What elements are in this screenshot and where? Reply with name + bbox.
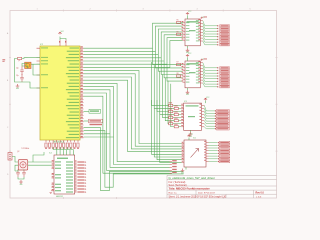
wire data3 to IC5 <box>84 32 183 58</box>
svg-text:MAX232: MAX232 <box>56 195 63 198</box>
wire branch4 to IC7 <box>164 61 182 78</box>
wire IC6 vcc <box>188 138 190 141</box>
wire bus2 w1 to K1 <box>84 74 182 146</box>
wire R to IC4 pin1 <box>57 147 60 151</box>
wire RN3 to IC3 <box>173 111 181 113</box>
wire branch2 to IC3 <box>157 68 169 111</box>
wire bus2 w7 to flags <box>84 93 170 170</box>
IC5 74HC595 body <box>185 19 200 46</box>
ground below IC3 <box>189 132 193 135</box>
svg-text:v. 6.3: v. 6.3 <box>256 197 262 199</box>
wire R to IC4 pin2 <box>60 147 63 151</box>
wire bus2 w3 to K1 <box>84 80 182 151</box>
wire data5 to IC5 <box>84 38 183 64</box>
power VCC at IC3 <box>204 98 207 100</box>
resistor RN2 <box>174 107 178 109</box>
svg-text:D: D <box>7 174 9 176</box>
wire C1 to crystal <box>22 66 28 69</box>
wire RN2 to IC3 <box>178 107 181 109</box>
wire branch2 to IC7 <box>158 55 182 72</box>
IC4 ground pin mark <box>50 191 55 194</box>
power VCC at IC5 pin 16 <box>201 17 204 19</box>
wire X1 to Q2 <box>12 157 18 163</box>
wire RN7 to IC3 <box>173 123 181 125</box>
wire VCC IC5 <box>187 15 189 19</box>
IC5 74HC595 pins <box>183 21 203 41</box>
IC7 74HC595 body <box>185 61 200 88</box>
svg-text:Rev 0.0: Rev 0.0 <box>256 192 265 195</box>
red net stubs at bus2 wire ends <box>170 161 172 163</box>
svg-text:22p: 22p <box>16 75 19 77</box>
flag box PDO <box>89 119 103 123</box>
resistor R16 <box>66 143 68 147</box>
wire XTAL2 to C1 <box>22 64 28 67</box>
wire IC3 vcc <box>205 101 207 104</box>
resistor RN3 <box>169 110 173 112</box>
wire to IC6 pin 7 <box>160 100 182 162</box>
svg-text:GND: GND <box>186 94 189 96</box>
ground below IC7 <box>186 90 190 93</box>
svg-text:GND: GND <box>181 173 184 175</box>
resistor RN8 <box>174 126 178 128</box>
wire to IC6 pin 6 <box>157 100 182 160</box>
power VCC above IC2 <box>58 32 61 34</box>
wire data1 to IC5 <box>84 26 183 51</box>
svg-text:R5: R5 <box>177 20 179 22</box>
IC6 output net labels <box>209 142 218 144</box>
microcontroller IC2 body <box>40 46 80 140</box>
svg-text:Date: 9 Feb 2017: Date: 9 Feb 2017 <box>198 191 216 194</box>
resistor R11 <box>48 143 50 147</box>
wire branch6 to IC3 <box>167 81 170 124</box>
resistor R14 <box>59 143 61 147</box>
wire Q2 out to IC4 <box>28 161 52 163</box>
wire lower pin 1 deep route <box>84 131 184 188</box>
wire bus2 w5 to flags <box>84 87 170 165</box>
wire branch0 to IC7 <box>153 48 183 64</box>
IC3 pins <box>181 105 204 126</box>
wire GND IC7 <box>187 88 189 91</box>
power VCC at IC7 pin 16 <box>201 59 204 61</box>
wire AVCC join <box>60 39 66 41</box>
IC2 top power pins <box>60 40 66 46</box>
resistor RN6 <box>174 120 178 122</box>
wire branch5 to IC3 <box>165 78 174 121</box>
resistor R6 <box>177 33 181 35</box>
resistor R12 <box>52 143 54 147</box>
svg-text:A: A <box>7 32 9 35</box>
IC4 top pins to resistor row <box>57 152 74 156</box>
svg-text:ty_elektronik_cmos_5x7_and_dri: ty_elektronik_cmos_5x7_and_driver <box>169 176 215 180</box>
resistor R7 <box>177 64 181 66</box>
svg-text:C: C <box>7 127 9 129</box>
resistor R13 <box>56 143 58 147</box>
svg-text:IC4: IC4 <box>49 152 52 154</box>
wire VCC to IC2 <box>59 37 61 41</box>
wire branch0 to IC3 <box>152 62 169 105</box>
resistor RN5 <box>169 117 173 119</box>
wire osc clk up to resistor row <box>33 152 44 162</box>
wire Q2 bottom to C8 <box>23 169 24 172</box>
schematic frame border <box>10 11 277 199</box>
IC4 body (bottom middle) <box>54 155 75 194</box>
svg-text:R6: R6 <box>177 31 179 33</box>
wire IC3 gnd <box>190 130 192 132</box>
wire RN5 to IC3 <box>173 117 181 119</box>
wire caps to gnd <box>18 177 24 179</box>
wire to C7 <box>15 170 18 172</box>
connector X1 on left edge <box>8 153 12 161</box>
resistor RN1 <box>169 104 173 106</box>
resistor R18 <box>73 143 75 147</box>
resistor R19 <box>77 143 79 147</box>
IC7 74HC595 output net labels <box>203 63 218 68</box>
IC2 right-side pins (stubs, pin numbers, pin names) <box>80 48 84 138</box>
wire lower pin 2 <box>84 133 111 135</box>
resistor R10 <box>45 143 47 147</box>
wire XTAL1 <box>28 57 41 59</box>
wire Q2 to IC4 b <box>28 164 52 166</box>
IC6 body (bottom right) <box>184 140 206 167</box>
wire R to IC4 pin3 <box>64 147 67 151</box>
wire to IC6 pin 4 <box>152 100 182 154</box>
wire Q2 left down <box>15 165 18 171</box>
resistor R8 <box>177 75 181 77</box>
resistor R1 <box>18 57 22 59</box>
wire bus2 w0 to K1 <box>84 71 182 144</box>
wire R to IC4 pin0 <box>53 147 57 151</box>
wire to flag2 <box>84 120 89 122</box>
wire to flag <box>84 110 90 112</box>
wire lower pin 3 <box>84 136 114 138</box>
wire RN1 to IC3 <box>173 104 181 106</box>
wire data0 to IC5 <box>84 23 183 48</box>
wire lower pin 0 deep route <box>84 127 184 190</box>
power VCC above IC5 <box>186 13 189 15</box>
flag text line 2 <box>90 124 103 125</box>
flag box PDI <box>89 109 101 113</box>
wire bus2 w4 to flags <box>84 83 170 161</box>
IC3 output net labels <box>204 105 216 111</box>
wire data6 to IC5 <box>84 41 183 68</box>
wire R1 to XTAL1 <box>22 57 28 60</box>
wire R to IC4 pin5 <box>71 147 73 151</box>
svg-text:GND: GND <box>19 184 22 186</box>
wire RN6 to IC3 <box>178 120 181 122</box>
IC5 74HC595 output net labels <box>203 21 218 26</box>
resistor RN7 <box>169 123 173 125</box>
wire branch4 to IC3 <box>163 74 169 117</box>
wire GND IC5 <box>187 46 189 49</box>
wire branch1 to IC3 <box>154 65 174 108</box>
crystal Q1 <box>25 62 31 68</box>
power VCC above IC6 <box>187 135 190 137</box>
svg-text:R7: R7 <box>177 62 179 64</box>
svg-text:Row: 1a: Row: 1a <box>169 192 178 194</box>
ground below C7 C8 <box>19 180 23 183</box>
capacitor C7 <box>16 170 20 178</box>
IC6 pins <box>182 143 209 163</box>
wire bus2 w2 to K1 <box>84 77 182 149</box>
wire R5 out <box>181 22 183 24</box>
svg-text:22p: 22p <box>16 68 19 70</box>
resistor RN4 <box>174 113 178 115</box>
IC4 right pins + labels <box>75 162 77 192</box>
IC2 left-side pins <box>37 48 41 88</box>
wire VCC IC7 <box>187 57 189 61</box>
oscillator Q2 body <box>18 160 27 170</box>
wire R to IC4 pin4 <box>67 147 70 151</box>
ground below IC5 <box>186 48 190 51</box>
ground below crystal caps <box>16 84 20 87</box>
wire R1 to caps <box>15 59 18 71</box>
wire RN8 to IC3 <box>178 126 181 128</box>
wire GND pin to ground <box>22 82 40 88</box>
wire RN4 to IC3 <box>178 114 181 116</box>
svg-text:IC3: IC3 <box>184 101 187 103</box>
wire to IC6 pin 5 <box>154 100 181 157</box>
wire bus2 w6 to flags <box>84 90 170 168</box>
svg-text:Title: MBC05-Funktionsmuster: Title: MBC05-Funktionsmuster <box>169 187 211 191</box>
capacitor C1 <box>20 66 24 75</box>
svg-text:Sheet: 1/1, (escheme-2015-07-1: Sheet: 1/1, (escheme-2015-07-18 SCF EOin… <box>169 196 227 199</box>
frame column ticks <box>9 10 278 200</box>
capacitor C2 <box>20 74 24 82</box>
capacitor C8 <box>22 170 26 178</box>
wire IC6 gnd <box>185 167 187 170</box>
IC4 left pins <box>52 162 55 191</box>
title block frame <box>167 175 277 198</box>
wire branch3 to IC7 <box>161 58 182 75</box>
wire XTAL2 <box>28 63 41 66</box>
ground below IC6 <box>181 169 185 172</box>
svg-text:Q1: Q1 <box>18 60 20 62</box>
wire branch1 to IC7 <box>155 51 182 68</box>
wire branch5 to IC7 <box>167 64 183 81</box>
svg-text:GND: GND <box>16 88 19 90</box>
driver IC3 ULN2803 body <box>184 103 202 130</box>
power VCC above IC7 <box>186 55 189 57</box>
svg-text:Q2: Q2 <box>17 151 19 153</box>
wire data2 to IC5 <box>84 29 183 55</box>
net label at left frame edge <box>2 59 5 60</box>
wire PEN <box>33 64 40 75</box>
svg-text:7.3728MHz: 7.3728MHz <box>21 148 29 150</box>
wire data4 to IC5 <box>84 35 183 61</box>
wire to ground net <box>15 70 23 82</box>
svg-text:B: B <box>7 80 9 82</box>
IC2 bottom pins <box>46 140 78 142</box>
wire branch7 to IC3 <box>171 84 174 127</box>
svg-text:R8: R8 <box>177 73 179 75</box>
resistor R17 <box>70 143 72 147</box>
wire branch3 to IC3 <box>160 71 174 114</box>
wire bus2 w8 to flags <box>84 96 170 173</box>
resistor R15 <box>63 143 65 147</box>
svg-text:IC6: IC6 <box>193 138 196 140</box>
resistor R5 <box>177 21 181 23</box>
IC7 74HC595 pins <box>183 63 203 83</box>
